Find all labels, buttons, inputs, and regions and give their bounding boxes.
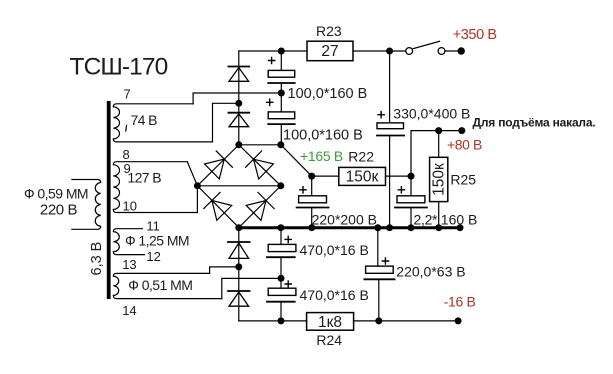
- node bridge top vertex: [235, 141, 242, 148]
- diode VD5: [228, 228, 250, 321]
- bridge diode top-left: [205, 151, 233, 179]
- svg-text:74 В: 74 В: [131, 112, 158, 128]
- wire pin7 step to cap node: [193, 93, 281, 104]
- svg-text:+165 В: +165 В: [300, 148, 343, 164]
- node 470 caps junction: [278, 275, 285, 282]
- svg-text:27: 27: [321, 43, 338, 60]
- node +165: [308, 173, 315, 180]
- svg-text:100,0*160 В: 100,0*160 В: [283, 128, 363, 144]
- node R22 right: [408, 173, 415, 180]
- capacitor 220,0*63 В: [364, 228, 394, 321]
- wire R23 to switch: [353, 50, 406, 52]
- svg-text:12: 12: [146, 249, 160, 264]
- bus node 2,2 column: [408, 224, 415, 231]
- svg-text:-16 В: -16 В: [444, 294, 476, 310]
- node cap2 bottom: [277, 141, 284, 148]
- node top rail at 330uF column: [386, 48, 393, 55]
- diode VD2: [228, 113, 249, 127]
- svg-text:150к: 150к: [431, 163, 448, 196]
- svg-text:7: 7: [124, 87, 131, 102]
- svg-text:220 В: 220 В: [40, 202, 78, 219]
- resistor R24: [307, 313, 354, 331]
- node R25 top: [435, 127, 442, 134]
- bridge diode top-right: [246, 151, 274, 179]
- svg-text:127 В: 127 В: [127, 170, 161, 186]
- capacitor 330,0*400 В: [377, 51, 404, 228]
- terminal -16 В: [455, 317, 462, 324]
- bus node 470 column: [277, 224, 284, 231]
- svg-text:1к8: 1к8: [318, 314, 342, 331]
- svg-text:150к: 150к: [346, 169, 379, 186]
- side top-right: [239, 145, 281, 186]
- svg-text:Ф 0,51 ММ: Ф 0,51 ММ: [128, 277, 192, 293]
- secondary winding 13-14 (Ф 0,51 ММ): [113, 273, 222, 298]
- resistor R22: [339, 167, 386, 185]
- node -16 rail 220,0 column: [375, 317, 382, 324]
- svg-text:ТСШ-170: ТСШ-170: [70, 54, 168, 81]
- svg-text:Ф 1,25 ММ: Ф 1,25 ММ: [125, 233, 189, 249]
- svg-text:R23: R23: [316, 23, 342, 39]
- svg-text:11: 11: [146, 219, 160, 234]
- bridge diode bottom-right: [246, 192, 274, 220]
- node top rail at cap column: [278, 48, 285, 55]
- capacitor 100,0*160 В (lower): [267, 93, 295, 145]
- svg-text:13: 13: [122, 257, 136, 272]
- bus node 330 column: [386, 224, 393, 231]
- bridge mid wire: [197, 185, 280, 187]
- diode VD6: [228, 291, 307, 321]
- wire top vertex to cap2 node: [239, 144, 281, 146]
- svg-text:330,0*400 В: 330,0*400 В: [393, 106, 470, 122]
- capacitor 2,2* 160 В: [395, 176, 427, 228]
- resistor R23: [307, 41, 353, 61]
- wire +165 node to R22: [312, 175, 339, 177]
- wire pin10 up to bridge left vertex: [196, 186, 198, 213]
- svg-text:6,3 В: 6,3 В: [89, 242, 105, 276]
- wire pin8 up to diode junction: [213, 103, 239, 142]
- wire pin13 step to diode junction: [210, 267, 239, 274]
- transformer core: [107, 101, 111, 299]
- svg-text:Для подъёма накала.: Для подъёма накала.: [473, 116, 596, 130]
- svg-text:R22: R22: [348, 149, 374, 165]
- winding polarity tick: [125, 126, 128, 132]
- node -16 rail 470 column: [278, 317, 285, 324]
- svg-text:220,0*63 В: 220,0*63 В: [396, 264, 465, 280]
- svg-text:470,0*16 В: 470,0*16 В: [300, 287, 369, 303]
- wire pin14 jog to cap junction: [222, 278, 281, 298]
- svg-text:14: 14: [122, 303, 136, 318]
- diode VD1 (top): [228, 51, 249, 145]
- bridge rectifier diamond: [197, 145, 280, 228]
- svg-text:220*200 В: 220*200 В: [312, 212, 377, 228]
- primary winding 220 V: [72, 180, 101, 230]
- wire diagonal cap2 node to +165 node: [281, 145, 312, 176]
- bus node 220,0*63 column: [374, 224, 381, 231]
- capacitor 470,0*16 В (upper): [267, 228, 296, 289]
- svg-text:Ф 0,59 ММ: Ф 0,59 ММ: [24, 186, 88, 202]
- node bridge right vertex: [277, 182, 284, 189]
- secondary winding 11-12 (Ф 1,25 ММ): [113, 229, 144, 255]
- svg-text:2,2*: 2,2*: [414, 212, 439, 228]
- bus node 220*200: [308, 224, 315, 231]
- node VD1/VD2 junction: [235, 100, 242, 107]
- svg-text:+350 В: +350 В: [453, 27, 497, 43]
- svg-text:+80 В: +80 В: [447, 137, 482, 153]
- wire R24 to -16 terminal: [354, 320, 459, 322]
- top rail wire: [239, 50, 307, 52]
- node bridge left vertex: [194, 182, 201, 189]
- bus node R25 column: [435, 224, 442, 231]
- side left-top: [197, 145, 238, 186]
- side left-bottom: [197, 186, 238, 228]
- bus end terminal: [457, 224, 464, 231]
- capacitor 100,0*160 В (upper): [268, 51, 295, 93]
- secondary winding 9-10 (127 В): [113, 162, 197, 213]
- terminal +350 В: [458, 47, 465, 54]
- ground bus (thick): [239, 226, 460, 229]
- svg-text:10: 10: [123, 199, 137, 214]
- bridge diode bottom-left: [204, 192, 232, 220]
- capacitor 220*200 В: [297, 176, 329, 228]
- wire R22 to node: [386, 175, 412, 177]
- capacitor 470,0*16 В (lower): [267, 281, 296, 321]
- svg-text:R24: R24: [316, 332, 342, 348]
- svg-text:100,0*160 В: 100,0*160 В: [288, 86, 368, 102]
- svg-text:R25: R25: [450, 172, 476, 188]
- switch SA: [406, 41, 461, 54]
- node VD5/VD6 junction: [235, 263, 242, 270]
- secondary winding 7-8 (74 В): [113, 104, 212, 142]
- terminal Для подъёма накала: [458, 127, 465, 134]
- svg-text:470,0*16 В: 470,0*16 В: [300, 242, 369, 258]
- node cap bottom / pin7 wire: [278, 90, 285, 97]
- svg-text:8: 8: [123, 147, 130, 162]
- bus node at bottom vertex: [235, 224, 242, 231]
- resistor R25 (vertical): [438, 131, 440, 158]
- side bottom-right: [239, 186, 281, 228]
- wire pin9 diagonal to bridge left vertex: [187, 162, 197, 186]
- wire R22 node up and right to terminal: [411, 131, 462, 177]
